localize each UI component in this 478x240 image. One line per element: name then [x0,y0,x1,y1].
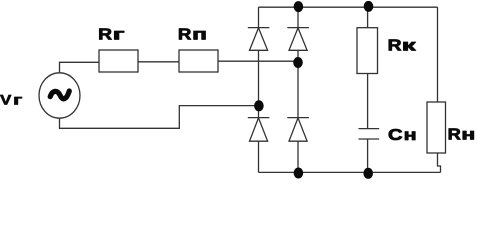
wire left column lower [258,141,260,172]
resistor R1 (Rg) body [99,50,138,72]
svg-text:R: R [448,127,462,144]
svg-text:C: C [388,127,403,144]
junction dot bottom rail / right diode column [294,168,304,179]
source V1 circle [39,73,80,118]
svg-text:к: к [402,38,418,55]
wire R1 to R2 [138,61,179,63]
svg-text:г: г [113,27,126,44]
svg-text:R: R [388,38,402,55]
diode D4 bottom-right [287,118,309,142]
resistor R3 (Rk) body [357,28,378,74]
svg-text:R: R [98,27,112,44]
wire right column lower [297,141,299,172]
svg-text:н: н [404,127,417,144]
wire source bottom loop to node A [60,106,259,129]
wire right column middle [297,50,299,117]
wire left column middle [258,50,260,117]
diode D3 bottom-left [248,118,270,142]
svg-text:V: V [0,92,12,108]
junction dot node A [254,100,264,111]
svg-text:R: R [178,27,192,44]
junction dot node B [293,57,303,68]
resistor R2 (Rp) body [179,50,218,72]
wire R3 to C1 [367,74,369,129]
wire R2 to bridge node B [218,60,298,62]
junction dot top rail / right diode column [294,1,304,12]
junction dot bottom rail / C1 column [363,168,373,179]
svg-text:н: н [461,127,475,144]
diode D2 top-right [287,28,309,51]
wire source top to R1 [60,62,100,73]
source sine symbol [50,91,69,99]
top rail wire [259,6,438,8]
wire top rail to R3 [367,7,369,28]
wire top rail to R4 [437,7,439,102]
wire left column upper [258,7,260,27]
resistor R4 (Rn) body [427,102,446,153]
svg-text:п: п [192,27,207,44]
capacitor C1 plates [359,129,380,139]
bottom rail wire [259,171,441,173]
svg-text:г: г [13,92,23,108]
wire R4 to bottom rail [438,153,441,172]
diode D1 top-left [248,28,270,51]
wire C1 to bottom rail [367,139,369,172]
wire right column upper [297,7,299,27]
junction dot top rail / R3 column [364,1,374,12]
